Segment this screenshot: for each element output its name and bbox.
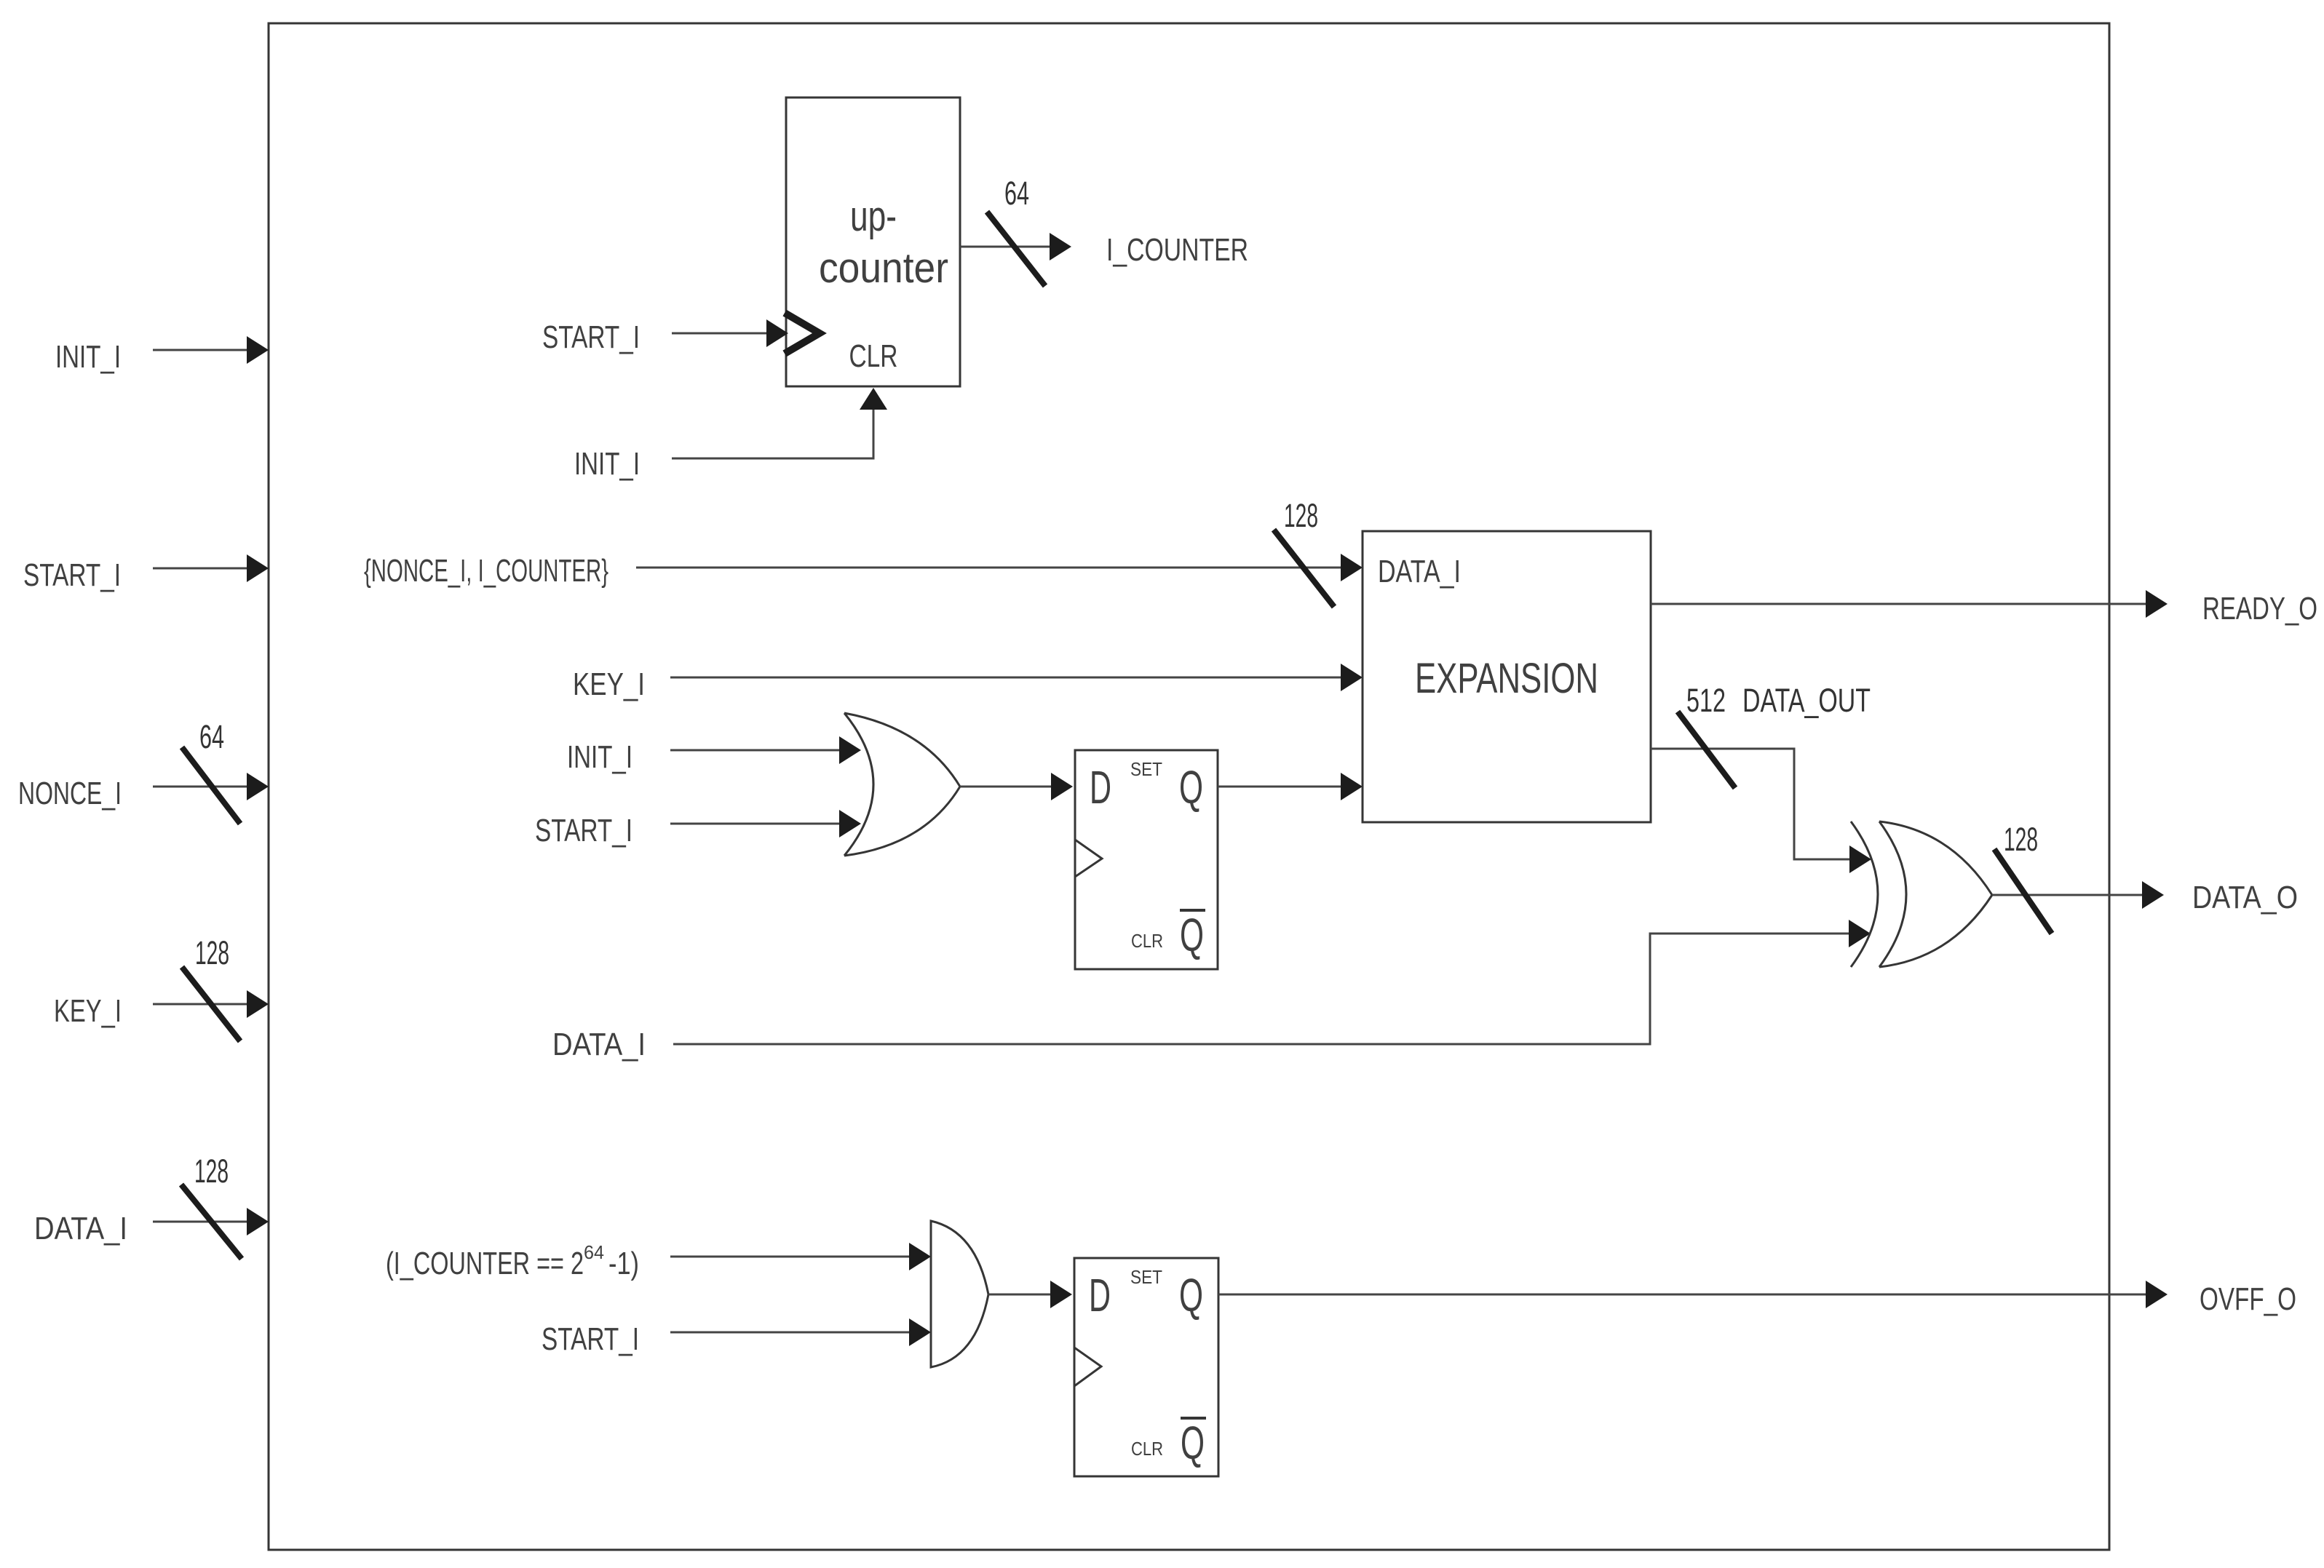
XOR gate U4 xyxy=(1851,821,1992,967)
wire START_I to lower OR gate xyxy=(670,1318,931,1346)
module boundary box xyxy=(269,23,2109,1550)
svg-text:CLR: CLR xyxy=(1131,930,1163,952)
svg-text:128: 128 xyxy=(195,934,229,971)
svg-text:-1): -1) xyxy=(608,1246,639,1281)
bus slash 64 on counter output xyxy=(987,212,1045,286)
wire START_I to OR gate xyxy=(670,810,861,837)
bus slash 512 on DATA_OUT xyxy=(1678,712,1735,788)
bus width label 128 xyxy=(194,1153,229,1190)
label NONCE_I (port) xyxy=(18,776,122,811)
svg-text:START_I: START_I xyxy=(542,319,640,355)
svg-text:I_COUNTER: I_COUNTER xyxy=(1106,232,1248,268)
svg-text:INIT_I: INIT_I xyxy=(574,446,640,482)
svg-text:DATA_O: DATA_O xyxy=(2192,880,2298,915)
label START_I (port) xyxy=(23,557,121,593)
bus width label 64 xyxy=(199,718,224,755)
label CLR inside up-counter xyxy=(849,338,898,374)
label KEY_I (to EXPANSION) xyxy=(573,666,645,702)
svg-text:EXPANSION: EXPANSION xyxy=(1415,655,1598,702)
wire KEY_I to boundary xyxy=(153,990,269,1018)
svg-text:READY_O: READY_O xyxy=(2202,591,2317,626)
svg-text:Q: Q xyxy=(1179,1269,1203,1321)
label READY_O (port) xyxy=(2202,591,2317,626)
svg-text:64: 64 xyxy=(1004,175,1029,212)
bus width label 128 xyxy=(2004,821,2038,858)
svg-text:128: 128 xyxy=(2004,821,2038,858)
clock chevron on up-counter xyxy=(785,313,820,354)
svg-text:OVFF_O: OVFF_O xyxy=(2200,1281,2296,1317)
wire NONCE_I to boundary xyxy=(153,773,269,800)
label START_I (to OR gate) xyxy=(535,813,632,848)
bus slash 128 on DATA_I of EXPANSION xyxy=(1274,530,1334,607)
svg-text:DATA_I: DATA_I xyxy=(1378,554,1461,589)
svg-text:up-: up- xyxy=(850,193,897,240)
net label {NONCE_I, I_COUNTER} xyxy=(364,553,608,589)
bus slash 128 on DATA_I xyxy=(181,1185,242,1259)
EXPANSION block U3 xyxy=(1363,531,1651,822)
label INIT_I (port) xyxy=(55,339,121,375)
bus width label 64 xyxy=(1004,175,1029,212)
wire READY_O from EXPANSION to port xyxy=(1651,590,2168,618)
wire INIT_I to boundary xyxy=(153,336,269,364)
svg-text:INIT_I: INIT_I xyxy=(567,739,632,775)
svg-text:INIT_I: INIT_I xyxy=(55,339,121,375)
bus slash 128 on DATA_O xyxy=(1994,849,2052,934)
net label DATA_I (feedthrough) xyxy=(552,1027,646,1062)
bus slash 64 on NONCE_I xyxy=(182,747,240,824)
bus width label 128 xyxy=(195,934,229,971)
wire INIT_I to OR gate xyxy=(670,736,861,764)
wire START_I to boundary xyxy=(153,554,269,582)
wire START_I to up-counter clock xyxy=(672,319,788,347)
wire DATA_OUT from EXPANSION to XOR xyxy=(1651,749,1871,873)
D flip-flop U6 xyxy=(1074,1258,1218,1476)
svg-text:Q: Q xyxy=(1180,909,1204,961)
label INIT_I (to OR gate) xyxy=(567,739,632,775)
svg-text:D: D xyxy=(1089,1269,1111,1321)
label START_I (to lower OR gate) xyxy=(542,1321,639,1357)
svg-text:counter: counter xyxy=(819,244,948,292)
label DATA_I (port) xyxy=(34,1211,127,1246)
OR gate U1 xyxy=(844,713,960,856)
svg-text:{NONCE_I, I_COUNTER}: {NONCE_I, I_COUNTER} xyxy=(364,553,608,589)
wire up-counter output xyxy=(960,233,1071,260)
svg-text:DATA_OUT: DATA_OUT xyxy=(1742,682,1871,719)
svg-text:64: 64 xyxy=(584,1241,604,1263)
svg-text:Q: Q xyxy=(1179,761,1203,813)
net label (I_COUNTER == 2^64 -1) xyxy=(386,1241,639,1281)
wire OVFF_O from D flip-flop to port xyxy=(1218,1281,2168,1308)
wire INIT_I to up-counter CLR xyxy=(672,388,887,458)
bus width label 128 xyxy=(1284,497,1318,534)
bus slash 128 on KEY_I xyxy=(182,967,240,1041)
svg-text:CLR: CLR xyxy=(1131,1438,1163,1460)
wire DATA_I to XOR lower input xyxy=(673,920,1871,1044)
svg-text:NONCE_I: NONCE_I xyxy=(18,776,122,811)
wire D flip-flop Q to EXPANSION xyxy=(1218,773,1363,800)
svg-text:64: 64 xyxy=(199,718,224,755)
svg-text:128: 128 xyxy=(1284,497,1318,534)
svg-text:SET: SET xyxy=(1130,758,1162,780)
svg-text:SET: SET xyxy=(1130,1266,1162,1288)
label OVFF_O (port) xyxy=(2200,1281,2296,1317)
svg-text:(I_COUNTER == 2: (I_COUNTER == 2 xyxy=(386,1246,584,1281)
svg-text:KEY_I: KEY_I xyxy=(573,666,645,702)
wire DATA_O from XOR to port xyxy=(1992,881,2164,909)
svg-text:Q: Q xyxy=(1181,1417,1205,1469)
svg-text:CLR: CLR xyxy=(849,338,898,374)
svg-text:DATA_I: DATA_I xyxy=(552,1027,646,1062)
label DATA_O (port) xyxy=(2192,880,2298,915)
OR gate U5 (flat-back) xyxy=(931,1221,988,1367)
wire OR gate output to D flip-flop xyxy=(960,773,1073,800)
net label I_COUNTER xyxy=(1106,232,1248,268)
wire (I_COUNTER==2^64-1) to OR gate xyxy=(670,1243,931,1270)
svg-text:D: D xyxy=(1090,761,1111,813)
svg-text:128: 128 xyxy=(194,1153,229,1190)
svg-text:START_I: START_I xyxy=(535,813,632,848)
wire {NONCE_I,I_COUNTER} to EXPANSION DATA_I xyxy=(636,554,1363,581)
wire DATA_I to boundary xyxy=(153,1208,269,1235)
wire lower OR output to D flip-flop xyxy=(988,1281,1072,1308)
up-counter block xyxy=(786,97,960,386)
label INIT_I (clear input) xyxy=(574,446,640,482)
bus width label 512 xyxy=(1686,682,1726,719)
D flip-flop U2 xyxy=(1075,750,1218,969)
label KEY_I (port) xyxy=(54,993,122,1029)
label START_I (clock input) xyxy=(542,319,640,355)
svg-text:512: 512 xyxy=(1686,682,1726,719)
svg-text:START_I: START_I xyxy=(542,1321,639,1357)
wire KEY_I to EXPANSION xyxy=(670,664,1363,691)
svg-text:START_I: START_I xyxy=(23,557,121,593)
svg-text:DATA_I: DATA_I xyxy=(34,1211,127,1246)
svg-text:KEY_I: KEY_I xyxy=(54,993,122,1029)
net label DATA_OUT xyxy=(1742,682,1871,719)
